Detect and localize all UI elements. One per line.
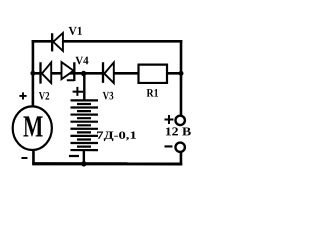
wire motor bottom stub — [32, 149, 35, 163]
wire right vertical lower — [180, 152, 183, 165]
resistor R1 — [139, 65, 168, 83]
diode V4 — [62, 62, 75, 81]
junction dot battery top — [81, 71, 86, 76]
wire battery top stub — [83, 73, 85, 100]
wire left vertical — [32, 40, 35, 106]
battery plus sign — [73, 87, 83, 96]
wire right vertical upper — [180, 40, 183, 115]
terminal minus sign — [164, 145, 172, 147]
junction dot right (branch2 / right wire) — [179, 71, 184, 76]
motor M circle — [13, 106, 52, 150]
motor plus sign — [19, 92, 26, 99]
diode V3 — [103, 62, 114, 83]
junction dot battery bottom — [81, 161, 86, 166]
wire bottom — [32, 162, 182, 165]
diode V1 — [52, 33, 63, 51]
battery minus sign — [69, 155, 79, 157]
svg-text:M: M — [23, 109, 43, 144]
wire top branch (V1 branch) — [32, 40, 183, 43]
terminal upper circle — [175, 116, 184, 125]
svg-text:V4: V4 — [75, 55, 89, 67]
battery GB 7Д-0,1 plates — [70, 100, 98, 150]
wire middle branch (V2 V4 V3 R1 branch) — [33, 72, 181, 75]
diode V2 — [41, 62, 52, 83]
terminal plus sign — [164, 115, 173, 124]
junction dot left (branch2 / left wire) — [30, 71, 35, 76]
svg-text:V3: V3 — [103, 90, 114, 102]
terminal lower circle — [175, 143, 184, 152]
wire battery bottom stub — [83, 150, 85, 163]
svg-text:12 В: 12 В — [165, 124, 192, 138]
svg-text:R1: R1 — [146, 88, 158, 100]
motor minus sign — [21, 157, 27, 159]
svg-text:V1: V1 — [69, 24, 83, 38]
svg-text:V2: V2 — [39, 91, 50, 103]
svg-text:7Д-0,1: 7Д-0,1 — [96, 130, 137, 142]
